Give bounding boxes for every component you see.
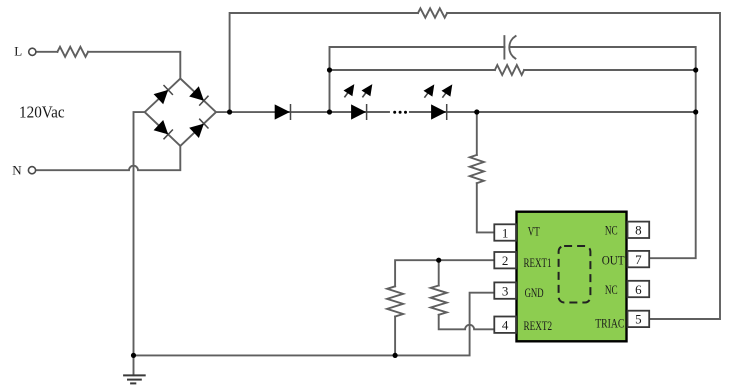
svg-text:8: 8	[635, 223, 642, 238]
svg-text:4: 4	[502, 318, 509, 333]
svg-text:REXT2: REXT2	[524, 318, 553, 333]
svg-text:120Vac: 120Vac	[19, 103, 65, 122]
svg-text:NC: NC	[605, 223, 618, 238]
svg-text:VT: VT	[528, 223, 540, 238]
svg-text:5: 5	[635, 312, 642, 327]
svg-text:1: 1	[502, 225, 509, 240]
svg-text:7: 7	[635, 252, 642, 267]
svg-text:6: 6	[635, 282, 642, 297]
svg-text:TRIAC: TRIAC	[595, 315, 624, 330]
svg-text:GND: GND	[525, 285, 544, 300]
svg-text:2: 2	[502, 253, 509, 268]
svg-text:3: 3	[502, 283, 509, 298]
svg-text:L: L	[14, 43, 22, 58]
svg-text:N: N	[12, 162, 22, 177]
svg-text:OUT: OUT	[602, 253, 625, 268]
svg-text:REXT1: REXT1	[524, 255, 552, 270]
svg-text:NC: NC	[605, 282, 618, 297]
